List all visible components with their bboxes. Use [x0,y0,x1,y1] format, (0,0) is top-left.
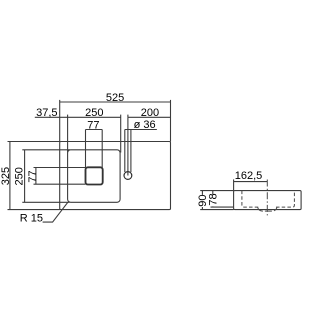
svg-text:ø 36: ø 36 [134,119,156,131]
svg-text:200: 200 [141,107,159,119]
svg-text:250: 250 [14,167,26,185]
svg-text:525: 525 [106,92,124,104]
svg-text:78: 78 [208,193,220,205]
svg-text:77: 77 [87,119,99,131]
svg-text:250: 250 [85,107,103,119]
svg-text:37,5: 37,5 [36,107,57,119]
svg-text:R 15: R 15 [20,212,43,224]
svg-text:162,5: 162,5 [235,170,263,182]
svg-text:325: 325 [0,167,12,185]
svg-text:77: 77 [27,170,39,182]
